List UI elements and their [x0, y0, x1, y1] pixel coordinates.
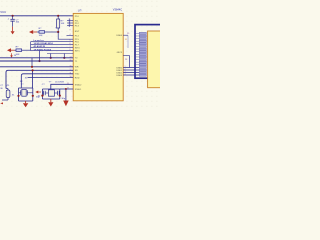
wire bus F	[28, 76, 74, 78]
svg-text:15: 15	[70, 60, 72, 62]
svg-text:4F AG25 W: 4F AG25 W	[34, 45, 46, 48]
wire vertical A-C link	[31, 58, 33, 67]
wire data bus to connector	[123, 68, 139, 76]
svg-text:19: 19	[67, 88, 69, 90]
wire bus E with corner	[21, 74, 73, 88]
svg-text:11: 11	[70, 72, 72, 74]
IC U? pin stub RST row	[67, 34, 74, 36]
node junction J3	[57, 31, 59, 33]
wire row 5	[47, 53, 73, 55]
net labels text rows	[34, 40, 54, 52]
IC U? pin stubs top-left group	[67, 19, 73, 28]
IC U? left pin numbers	[67, 19, 72, 90]
svg-text:WR: WR	[75, 67, 79, 69]
node junction J4	[38, 60, 40, 62]
wire vertical from rows to bus B	[39, 51, 41, 61]
svg-text:08C3: 08C3	[117, 52, 123, 54]
svg-text:4: 4	[70, 34, 71, 36]
svg-text:18: 18	[67, 83, 69, 85]
IC U? right pin stub mid L-wire	[123, 56, 129, 68]
crystal Y2 group (right loop)	[36, 82, 66, 100]
wire bus B	[0, 60, 73, 62]
ground arrow right of Y2	[63, 88, 68, 106]
IC U? right pin stub DB04	[123, 33, 130, 48]
capacitor C2 (capsule, bottom-left)	[0, 85, 15, 104]
wire vertical to bus A (x=50.7)	[50, 54, 52, 58]
node junction J8	[31, 69, 33, 71]
ground arrow under Y2 loop	[48, 99, 53, 107]
net label rows to IC left pins	[31, 42, 74, 51]
svg-text:RXD: RXD	[75, 77, 80, 79]
svg-text:10K: 10K	[39, 35, 43, 37]
module box (yellow, right, partially visible)	[148, 31, 164, 88]
svg-text:DB04: DB04	[117, 35, 123, 37]
wire VCC net (top horizontal)	[0, 15, 73, 17]
wire bus C	[0, 66, 73, 68]
svg-text:3: 3	[70, 24, 71, 26]
svg-text:10K: 10K	[61, 23, 65, 25]
svg-text:U?: U?	[78, 9, 82, 13]
node junction J1	[12, 15, 14, 17]
ground arrow under Y1 loop	[23, 101, 28, 107]
svg-text:4: 4	[125, 74, 126, 76]
node junction J6	[63, 57, 65, 59]
svg-text:XTAL2: XTAL2	[75, 83, 82, 86]
svg-text:7: 7	[70, 46, 71, 48]
svg-text:10 M5 VG5A3 MC4: 10 M5 VG5A3 MC4	[34, 42, 54, 45]
svg-text:17: 17	[70, 69, 72, 71]
svg-text:Lo wo b.o: Lo wo b.o	[34, 40, 45, 42]
svg-text:9: 9	[70, 30, 71, 32]
wire XTAL1 to IC	[60, 88, 73, 90]
node junction J2	[57, 15, 59, 17]
svg-text:INT0: INT0	[75, 48, 81, 50]
svg-text:XTAL1: XTAL1	[75, 88, 82, 91]
wire bus A	[0, 57, 73, 59]
svg-text:10K: 10K	[16, 54, 20, 56]
svg-text:5: 5	[70, 40, 71, 42]
svg-text:DB03: DB03	[117, 75, 123, 77]
svg-text:16: 16	[70, 65, 72, 67]
wire XTAL2 to IC	[51, 84, 73, 89]
resistor R2 (horizontal)	[29, 28, 58, 37]
svg-text:14: 14	[70, 56, 72, 58]
capacitor C1	[7, 16, 20, 27]
sheet symbol (blue box)	[135, 25, 165, 79]
wire RST L-shape	[58, 32, 73, 39]
IC U? (MCU) body	[73, 13, 123, 100]
resistor R3 (horizontal, lower)	[7, 47, 31, 56]
svg-text:8: 8	[70, 49, 71, 51]
node junction J7	[31, 66, 33, 68]
IC U? right pin labels	[117, 35, 123, 77]
svg-text:1P P0WG PUG04: 1P P0WG PUG04	[34, 48, 52, 51]
power arrow onto bus A	[10, 53, 17, 57]
svg-text:INT1: INT1	[75, 51, 81, 53]
crystal Y1 group (left loop)	[17, 84, 33, 101]
resistor R1 (pull-up, vertical)	[57, 16, 65, 32]
wire bus pin numbers	[125, 66, 126, 76]
connector P? pin rows	[136, 32, 146, 76]
IC U? left pin internal labels	[75, 16, 82, 91]
ground arrow under C1	[11, 27, 15, 35]
svg-text:11.0592M: 11.0592M	[55, 82, 64, 84]
wire vertical to bus A (x=64.3)	[63, 54, 65, 58]
svg-text:V3644C: V3644C	[113, 8, 123, 12]
svg-text:VCC: VCC	[0, 10, 6, 14]
svg-text:6: 6	[70, 43, 71, 45]
svg-text:10: 10	[70, 76, 72, 78]
svg-text:TXD: TXD	[75, 74, 80, 76]
power arrow X2 (left-pointing, mid-bottom)	[35, 91, 41, 98]
wire bus D with corner	[6, 70, 73, 88]
svg-text:RD: RD	[75, 70, 79, 72]
svg-text:RST: RST	[75, 31, 80, 33]
wire vertical D to crystal loop	[32, 70, 34, 88]
node junction J5	[50, 57, 52, 59]
